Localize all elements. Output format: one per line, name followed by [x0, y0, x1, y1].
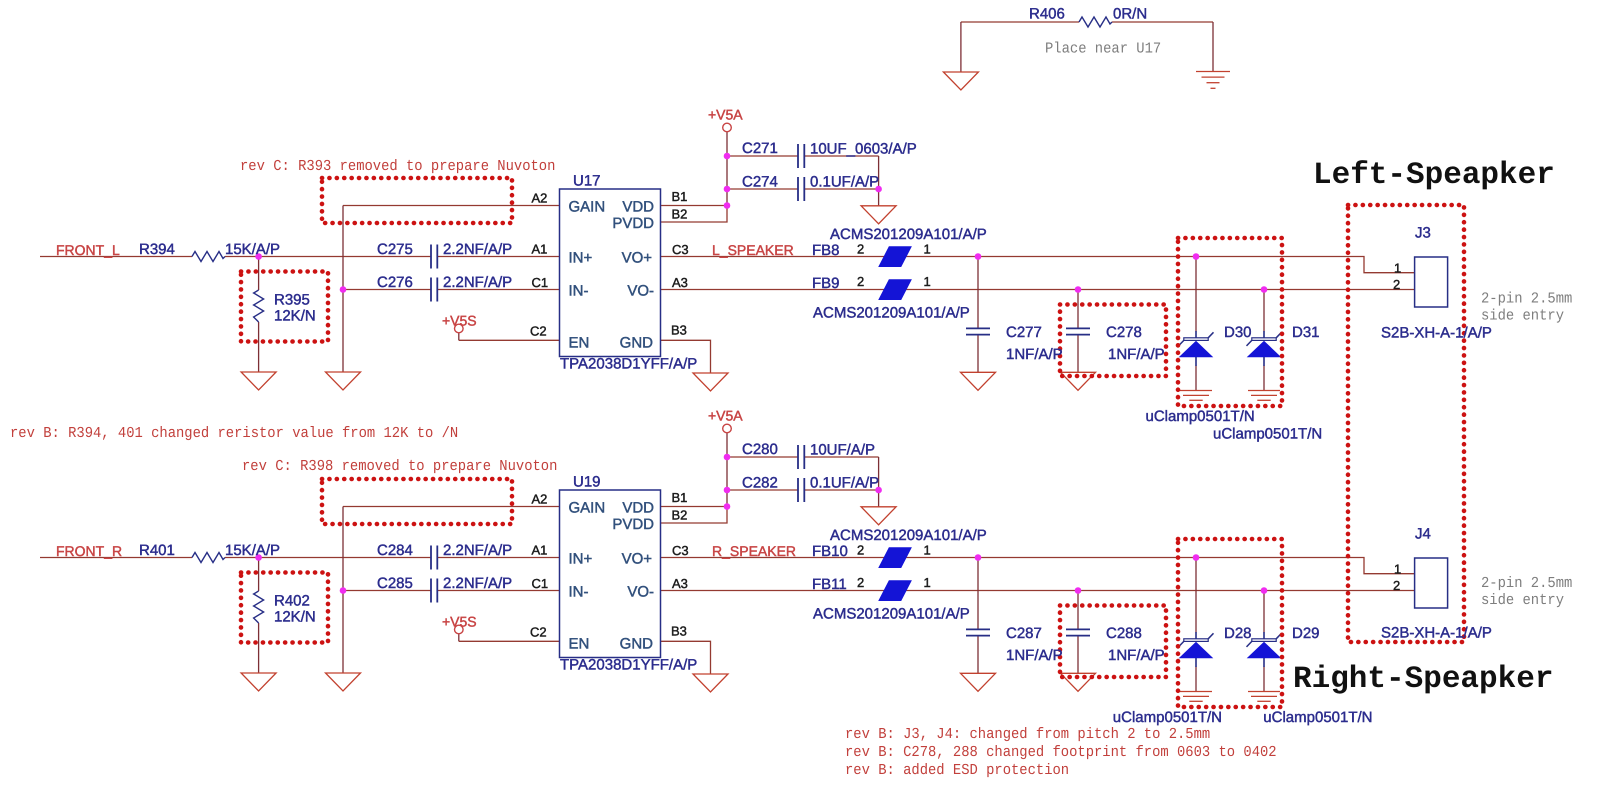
svg-text:VDD: VDD: [622, 500, 654, 517]
svg-text:GAIN: GAIN: [569, 199, 606, 216]
svg-text:PVDD: PVDD: [612, 215, 654, 232]
svg-text:2.2NF/A/P: 2.2NF/A/P: [443, 575, 512, 592]
svg-text:2: 2: [857, 575, 864, 590]
svg-text:2.2NF/A/P: 2.2NF/A/P: [443, 241, 512, 258]
svg-text:C1: C1: [532, 275, 549, 290]
svg-text:B1: B1: [672, 189, 688, 204]
svg-text:B2: B2: [672, 207, 688, 222]
svg-text:A2: A2: [532, 191, 548, 206]
svg-text:10UF/A/P: 10UF/A/P: [810, 442, 875, 459]
svg-text:2: 2: [1393, 578, 1400, 593]
svg-text:TPA2038D1YFF/A/P: TPA2038D1YFF/A/P: [560, 356, 697, 373]
svg-text:B3: B3: [671, 323, 687, 338]
svg-text:2: 2: [857, 274, 864, 289]
svg-text:1: 1: [1394, 261, 1401, 276]
svg-text:1NF/A/P: 1NF/A/P: [1006, 647, 1063, 664]
svg-text:IN+: IN+: [569, 551, 593, 568]
svg-text:GND: GND: [620, 636, 654, 653]
svg-text:ACMS201209A101/A/P: ACMS201209A101/A/P: [830, 527, 987, 544]
svg-text:1: 1: [924, 575, 931, 590]
svg-text:S2B-XH-A-1/A/P: S2B-XH-A-1/A/P: [1381, 625, 1492, 642]
svg-text:GND: GND: [620, 335, 654, 352]
svg-text:B3: B3: [671, 624, 687, 639]
svg-text:10UF_0603/A/P: 10UF_0603/A/P: [810, 141, 917, 158]
svg-text:12K/N: 12K/N: [274, 308, 316, 325]
svg-text:IN+: IN+: [569, 250, 593, 267]
svg-text:C276: C276: [377, 274, 413, 291]
svg-text:C275: C275: [377, 241, 413, 258]
svg-text:A1: A1: [532, 242, 548, 257]
svg-text:1: 1: [924, 242, 931, 257]
svg-text:0.1UF/A/P: 0.1UF/A/P: [810, 475, 879, 492]
svg-text:B2: B2: [672, 508, 688, 523]
svg-text:rev B: added ESD protection: rev B: added ESD protection: [845, 761, 1069, 779]
svg-text:1: 1: [1394, 562, 1401, 577]
svg-text:C282: C282: [742, 475, 778, 492]
svg-text:2.2NF/A/P: 2.2NF/A/P: [443, 274, 512, 291]
svg-text:FB9: FB9: [812, 275, 840, 292]
svg-text:B1: B1: [672, 490, 688, 505]
svg-text:1: 1: [924, 543, 931, 558]
svg-text:EN: EN: [569, 335, 590, 352]
svg-text:+V5S: +V5S: [442, 313, 477, 329]
svg-text:A1: A1: [532, 543, 548, 558]
svg-text:D31: D31: [1292, 324, 1320, 341]
svg-text:L_SPEAKER: L_SPEAKER: [712, 242, 794, 258]
svg-text:ACMS201209A101/A/P: ACMS201209A101/A/P: [830, 226, 987, 243]
svg-text:D29: D29: [1292, 625, 1320, 642]
svg-text:A3: A3: [672, 576, 688, 591]
svg-text:D28: D28: [1224, 625, 1252, 642]
svg-text:2-pin 2.5mm: 2-pin 2.5mm: [1481, 574, 1572, 592]
svg-text:C2: C2: [530, 625, 547, 640]
svg-text:uClamp0501T/N: uClamp0501T/N: [1113, 709, 1222, 726]
svg-text:0.1UF/A/P: 0.1UF/A/P: [810, 174, 879, 191]
svg-text:12K/N: 12K/N: [274, 609, 316, 626]
svg-text:1NF/A/P: 1NF/A/P: [1006, 346, 1063, 363]
svg-text:C280: C280: [742, 441, 778, 458]
svg-text:VO+: VO+: [622, 551, 653, 568]
svg-text:C278: C278: [1106, 324, 1142, 341]
svg-text:side entry: side entry: [1481, 591, 1564, 609]
svg-text:R402: R402: [274, 593, 310, 610]
svg-text:C277: C277: [1006, 324, 1042, 341]
svg-text:IN-: IN-: [569, 283, 589, 300]
svg-text:2: 2: [857, 543, 864, 558]
svg-text:Right-Speapker: Right-Speapker: [1293, 662, 1553, 697]
svg-text:1NF/A/P: 1NF/A/P: [1108, 647, 1165, 664]
svg-text:uClamp0501T/N: uClamp0501T/N: [1263, 709, 1372, 726]
svg-text:FB10: FB10: [812, 543, 848, 560]
svg-text:rev B: C278, 288 changed footp: rev B: C278, 288 changed footprint from …: [845, 743, 1277, 761]
svg-text:VDD: VDD: [622, 199, 654, 216]
svg-text:+V5A: +V5A: [708, 107, 743, 123]
svg-text:PVDD: PVDD: [612, 516, 654, 533]
svg-text:15K/A/P: 15K/A/P: [225, 241, 280, 258]
svg-text:+V5S: +V5S: [442, 614, 477, 630]
svg-text:FB8: FB8: [812, 242, 840, 259]
svg-text:R_SPEAKER: R_SPEAKER: [712, 543, 796, 559]
svg-text:A3: A3: [672, 275, 688, 290]
svg-text:FRONT_L: FRONT_L: [56, 242, 120, 258]
svg-text:R406: R406: [1029, 6, 1065, 23]
svg-text:S2B-XH-A-1/A/P: S2B-XH-A-1/A/P: [1381, 325, 1492, 342]
svg-text:rev B: R394, 401 changed reris: rev B: R394, 401 changed reristor value …: [10, 424, 458, 442]
svg-text:uClamp0501T/N: uClamp0501T/N: [1146, 408, 1255, 425]
svg-text:Place near U17: Place near U17: [1045, 40, 1161, 58]
svg-text:D30: D30: [1224, 324, 1252, 341]
svg-text:side entry: side entry: [1481, 307, 1564, 325]
svg-text:TPA2038D1YFF/A/P: TPA2038D1YFF/A/P: [560, 657, 697, 674]
svg-text:15K/A/P: 15K/A/P: [225, 542, 280, 559]
svg-text:FB11: FB11: [812, 576, 847, 593]
svg-text:1: 1: [924, 274, 931, 289]
svg-text:C3: C3: [672, 242, 689, 257]
svg-text:C3: C3: [672, 543, 689, 558]
svg-text:R401: R401: [139, 542, 175, 559]
svg-text:VO+: VO+: [622, 250, 653, 267]
svg-text:IN-: IN-: [569, 584, 589, 601]
svg-text:2.2NF/A/P: 2.2NF/A/P: [443, 542, 512, 559]
svg-text:C288: C288: [1106, 625, 1142, 642]
svg-text:rev B: J3, J4: changed from pi: rev B: J3, J4: changed from pitch 2 to 2…: [845, 725, 1210, 743]
svg-text:C1: C1: [532, 576, 549, 591]
svg-text:C287: C287: [1006, 625, 1042, 642]
svg-text:ACMS201209A101/A/P: ACMS201209A101/A/P: [813, 606, 970, 623]
svg-text:R394: R394: [139, 241, 175, 258]
svg-text:Left-Speapker: Left-Speapker: [1313, 158, 1555, 193]
svg-text:+V5A: +V5A: [708, 408, 743, 424]
svg-text:U17: U17: [573, 173, 601, 190]
svg-text:2: 2: [1393, 277, 1400, 292]
svg-text:EN: EN: [569, 636, 590, 653]
svg-text:J3: J3: [1415, 225, 1431, 242]
svg-text:2: 2: [857, 242, 864, 257]
svg-text:rev C: R393 removed to prepare: rev C: R393 removed to prepare Nuvoton: [240, 157, 555, 175]
svg-text:C2: C2: [530, 324, 547, 339]
svg-text:FRONT_R: FRONT_R: [56, 543, 122, 559]
svg-text:1NF/A/P: 1NF/A/P: [1108, 346, 1165, 363]
svg-text:R395: R395: [274, 292, 310, 309]
svg-text:VO-: VO-: [627, 283, 654, 300]
svg-text:ACMS201209A101/A/P: ACMS201209A101/A/P: [813, 305, 970, 322]
svg-text:C274: C274: [742, 174, 778, 191]
svg-text:uClamp0501T/N: uClamp0501T/N: [1213, 426, 1322, 443]
svg-text:GAIN: GAIN: [569, 500, 606, 517]
svg-text:A2: A2: [532, 492, 548, 507]
svg-text:C285: C285: [377, 575, 413, 592]
svg-text:2-pin 2.5mm: 2-pin 2.5mm: [1481, 290, 1572, 308]
svg-text:C271: C271: [742, 140, 778, 157]
svg-text:J4: J4: [1415, 526, 1431, 543]
svg-text:VO-: VO-: [627, 584, 654, 601]
svg-text:0R/N: 0R/N: [1113, 6, 1147, 23]
svg-text:C284: C284: [377, 542, 413, 559]
svg-text:rev C: R398 removed to prepare: rev C: R398 removed to prepare Nuvoton: [242, 457, 557, 475]
svg-text:U19: U19: [573, 474, 601, 491]
